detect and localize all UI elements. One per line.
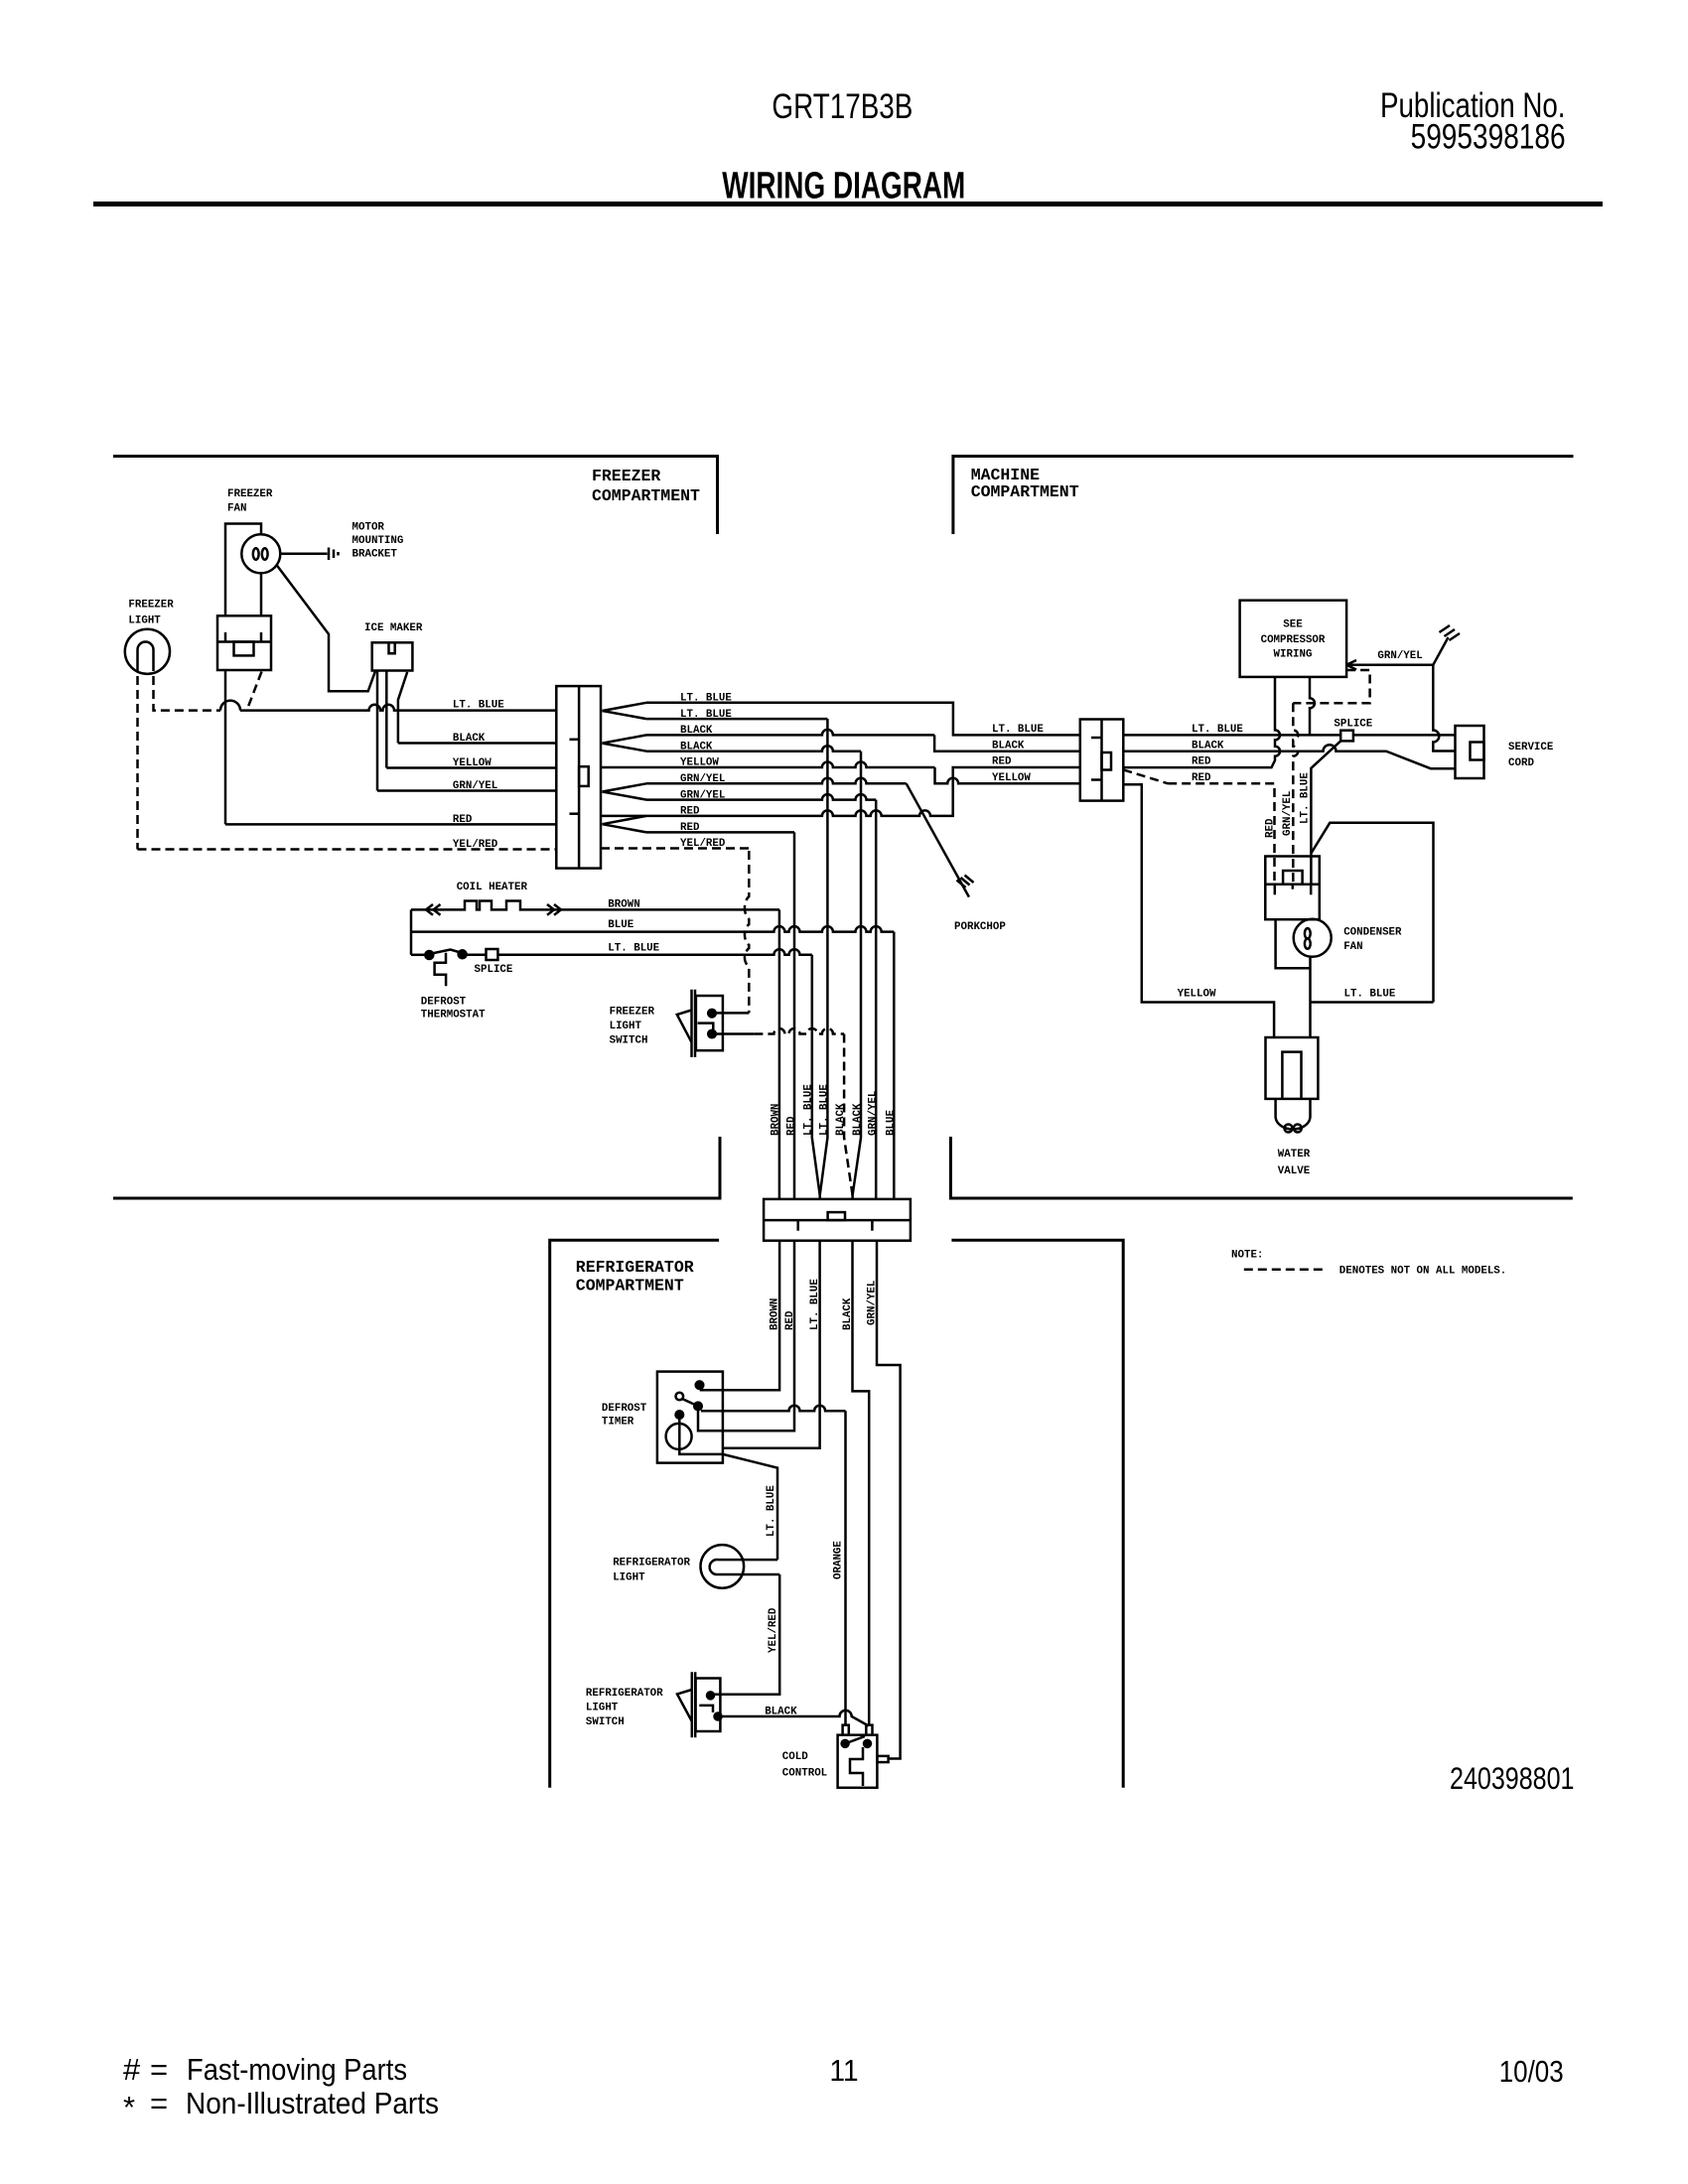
label BLACK vert2	[852, 1103, 864, 1136]
label BLACK left	[453, 733, 486, 745]
svg-text:FREEZER: FREEZER	[592, 467, 660, 485]
defrost timer TM1	[657, 1372, 723, 1463]
wire LT. BLUE drop merge	[812, 719, 828, 1199]
wire GRN/YEL to cold control	[877, 1241, 901, 1759]
label BROWN vert2	[770, 1298, 781, 1330]
label RED left	[453, 814, 473, 826]
svg-text:WATER: WATER	[1278, 1149, 1311, 1160]
svg-text:COIL HEATER: COIL HEATER	[457, 882, 528, 893]
svg-text:GRN/YEL: GRN/YEL	[1377, 650, 1422, 662]
label YELLOW machine left	[992, 772, 1031, 784]
wire GRN/YEL left	[377, 789, 556, 792]
svg-text:BLUE: BLUE	[886, 1110, 898, 1136]
svg-text:FAN: FAN	[1343, 941, 1362, 953]
svg-text:ORANGE: ORANGE	[833, 1541, 845, 1579]
hatch porkchop ground	[957, 876, 974, 888]
label BLACK r1	[680, 725, 713, 737]
svg-text:DEFROST: DEFROST	[421, 997, 467, 1009]
wire LT. BLUE splice to service cord	[1353, 734, 1456, 737]
svg-text:BLACK: BLACK	[992, 741, 1025, 752]
wire switch to BLACK dashed drop	[712, 1028, 844, 1034]
svg-text:SPLICE: SPLICE	[475, 964, 513, 976]
svg-text:GRT17B3B: GRT17B3B	[772, 87, 913, 126]
svg-text:FAN: FAN	[227, 503, 246, 515]
label BLUE coil	[608, 919, 633, 931]
label RED vert2	[784, 1310, 796, 1330]
svg-text:LIGHT: LIGHT	[610, 1021, 642, 1032]
svg-text:LT. BLUE: LT. BLUE	[819, 1084, 831, 1136]
refrigerator light switch S3	[677, 1672, 722, 1737]
label BLACK vert1	[835, 1103, 847, 1136]
wire GRN/YEL 1 to porkchop ground	[646, 778, 969, 897]
wire GRN/YEL 2 drop to refrigerator	[646, 794, 876, 799]
svg-text:5995398186: 5995398186	[1411, 118, 1566, 157]
label LT. BLUE vert machine	[1300, 772, 1312, 824]
svg-text:ICE MAKER: ICE MAKER	[364, 622, 423, 634]
svg-text:SWITCH: SWITCH	[586, 1716, 625, 1728]
wire BLACK to cold control	[853, 1241, 870, 1725]
publication number	[1380, 86, 1566, 157]
svg-text:240398801: 240398801	[1450, 1760, 1575, 1796]
svg-text:LT. BLUE: LT. BLUE	[1344, 989, 1396, 1001]
wire BLACK switch to cold control	[718, 1710, 869, 1726]
label LT. BLUE coil	[608, 943, 659, 955]
svg-text:=: =	[150, 2052, 168, 2087]
label LT. BLUE left	[453, 700, 504, 712]
wire BLACK machine to service cord	[1123, 745, 1455, 768]
svg-text:RED: RED	[784, 1310, 796, 1330]
label BROWN coil	[608, 899, 639, 911]
label RED dashed right	[1192, 772, 1211, 784]
wire BLACK solid merge	[853, 751, 861, 1199]
svg-text:*: *	[123, 2090, 135, 2124]
machine compartment border	[950, 457, 1573, 1199]
svg-text:LT. BLUE: LT. BLUE	[608, 943, 659, 955]
label SPLICE machine	[1334, 719, 1372, 731]
svg-text:GRN/YEL: GRN/YEL	[453, 780, 497, 792]
svg-text:11: 11	[830, 2053, 859, 2088]
label RED machine right	[1192, 756, 1211, 768]
label GRN/YEL vert machine	[1282, 791, 1294, 836]
wire BLACK dashed merge	[844, 1034, 853, 1196]
machine compartment label	[971, 466, 1079, 501]
note text	[1339, 1266, 1506, 1278]
wire BLACK 2 drop to refrigerator	[646, 746, 861, 751]
svg-text:TIMER: TIMER	[602, 1417, 634, 1429]
svg-text:BLACK: BLACK	[835, 1103, 847, 1136]
footer fast-moving parts	[123, 2052, 407, 2087]
label BLACK machine right	[1192, 741, 1224, 752]
svg-text:Fast-moving Parts: Fast-moving Parts	[187, 2052, 407, 2087]
refrigerator connector CONN3	[764, 1199, 911, 1241]
label BLACK vert3	[842, 1297, 854, 1330]
svg-text:BLACK: BLACK	[1192, 741, 1224, 752]
svg-text:LT. BLUE: LT. BLUE	[992, 724, 1044, 736]
footer non-illustrated parts	[123, 2086, 439, 2124]
freezer fan connector P1	[217, 615, 271, 670]
label LT. BLUE r1	[680, 693, 732, 705]
wire LT. BLUE 1 to machine compartment	[646, 703, 1080, 736]
svg-text:BROWN: BROWN	[770, 1298, 781, 1330]
header rule	[93, 202, 1603, 206]
wire LT. BLUE branch to condenser circuit	[1311, 823, 1433, 1003]
freezer fan motor M1	[225, 524, 280, 616]
svg-text:10/03: 10/03	[1499, 2054, 1564, 2089]
label YEL/RED light	[768, 1607, 779, 1653]
label GRN/YEL machine	[1377, 650, 1422, 662]
svg-text:FREEZER: FREEZER	[128, 600, 174, 612]
svg-text:BROWN: BROWN	[608, 899, 639, 911]
wire fan motor lead to ice maker area	[277, 565, 375, 691]
wire RED machine to compressor	[1123, 677, 1280, 767]
wire switch dashes fan connector to LT.BLUE	[248, 672, 262, 709]
svg-text:LT. BLUE: LT. BLUE	[809, 1279, 821, 1330]
ice maker pin 2 to YELLOW	[385, 671, 388, 768]
svg-text:COMPARTMENT: COMPARTMENT	[592, 486, 700, 505]
wire timer to ORANGE cold control	[701, 1406, 846, 1725]
svg-text:BLACK: BLACK	[680, 725, 713, 737]
svg-text:LT. BLUE: LT. BLUE	[680, 709, 732, 721]
wire RED drop	[793, 832, 796, 1199]
freezer light switch S2	[677, 990, 723, 1057]
compressor wiring box	[1240, 601, 1347, 677]
svg-text:COMPRESSOR: COMPRESSOR	[1261, 634, 1326, 646]
wire BROWN drop	[778, 909, 781, 1199]
label GRN/YEL vert2	[867, 1281, 879, 1325]
svg-text:BLACK: BLACK	[842, 1297, 854, 1330]
title model number GRT17B3B	[772, 87, 913, 126]
label RED vert	[786, 1116, 798, 1136]
ice maker pin 1 to GRN/YEL	[376, 671, 379, 791]
wire RED left	[225, 823, 556, 826]
wire compressor pin to LT. BLUE	[1310, 677, 1315, 736]
svg-text:RED: RED	[453, 814, 473, 826]
wire RED dashed to compressor terminal	[1123, 769, 1274, 884]
wire LT. BLUE left	[240, 705, 556, 711]
wire YEL/RED left (dashed)	[138, 848, 557, 851]
label YELLOW left	[453, 757, 492, 769]
note dashed sample	[1244, 1268, 1327, 1271]
svg-text:YEL/RED: YEL/RED	[768, 1607, 779, 1653]
svg-text:YEL/RED: YEL/RED	[453, 839, 498, 851]
label RED vert machine	[1265, 818, 1277, 838]
note legend	[1231, 1250, 1263, 1262]
svg-text:DEFROST: DEFROST	[602, 1403, 647, 1415]
water valve V1	[1266, 1003, 1319, 1133]
label LT. BLUE light	[766, 1485, 777, 1537]
label SPLICE freezer	[475, 964, 513, 976]
svg-text:DENOTES NOT ON ALL MODELS.: DENOTES NOT ON ALL MODELS.	[1339, 1266, 1506, 1278]
wire freezer light to LT.BLUE (dashed)	[154, 662, 241, 711]
svg-text:BLACK: BLACK	[765, 1706, 797, 1718]
compressor wiring label	[1261, 619, 1326, 661]
svg-text:SWITCH: SWITCH	[610, 1035, 648, 1047]
label BROWN vert	[771, 1104, 782, 1136]
refrigerator compartment label	[576, 1258, 694, 1296]
label GRN/YEL left	[453, 780, 497, 792]
wire YELLOW to machine compartment	[601, 762, 1080, 784]
arrow splice RED pair	[603, 816, 647, 833]
svg-text:LT. BLUE: LT. BLUE	[766, 1485, 777, 1537]
footer date	[1499, 2054, 1564, 2089]
svg-text:FREEZER: FREEZER	[227, 488, 273, 500]
svg-text:RED: RED	[992, 756, 1012, 768]
svg-text:CONTROL: CONTROL	[782, 1768, 827, 1780]
label BLUE vert	[886, 1110, 898, 1136]
wire condenser fan loop	[1276, 919, 1311, 1002]
svg-text:LT. BLUE: LT. BLUE	[1192, 724, 1243, 736]
svg-text:COMPARTMENT: COMPARTMENT	[971, 482, 1079, 501]
footer page number	[830, 2053, 859, 2088]
splice on LT. BLUE	[487, 949, 498, 960]
svg-text:REFRIGERATOR: REFRIGERATOR	[613, 1558, 690, 1570]
wire LT. BLUE machine to splice	[1123, 734, 1340, 737]
svg-text:GRN/YEL: GRN/YEL	[680, 773, 725, 785]
svg-text:COMPARTMENT: COMPARTMENT	[576, 1277, 684, 1296]
freezer light label	[128, 600, 174, 627]
ice maker	[372, 642, 413, 670]
arrow splice GRN/YEL pair	[603, 783, 647, 799]
svg-text:YEL/RED: YEL/RED	[680, 838, 726, 850]
freezer fan label	[227, 488, 273, 515]
wire fan connector left pin to RED	[224, 670, 227, 824]
wire YEL/RED dashed drop	[601, 847, 749, 850]
svg-text:REFRIGERATOR: REFRIGERATOR	[586, 1688, 663, 1700]
svg-text:RED: RED	[1192, 772, 1211, 784]
label LT. BLUE vert3	[809, 1279, 821, 1330]
svg-text:LIGHT: LIGHT	[128, 615, 161, 627]
wire BROWN to defrost timer	[701, 1241, 779, 1391]
svg-text:VALVE: VALVE	[1278, 1165, 1311, 1177]
svg-text:THERMOSTAT: THERMOSTAT	[421, 1010, 486, 1022]
part number 240398801	[1450, 1760, 1575, 1796]
refrigerator light label	[613, 1558, 690, 1584]
freezer compartment border	[113, 457, 720, 1199]
svg-text:RED: RED	[680, 806, 700, 818]
coil heater label	[457, 882, 528, 893]
service cord label	[1508, 742, 1554, 769]
svg-text:RED: RED	[680, 822, 700, 834]
label ORANGE	[833, 1541, 845, 1579]
svg-text:PORKCHOP: PORKCHOP	[954, 921, 1006, 933]
svg-text:YELLOW: YELLOW	[1178, 989, 1216, 1001]
defrost timer label	[602, 1403, 647, 1429]
label BLACK r2	[680, 741, 713, 752]
freezer light switch label	[610, 1007, 655, 1047]
svg-text:LT. BLUE: LT. BLUE	[680, 693, 732, 705]
wire LT. BLUE coil heater run	[467, 949, 812, 955]
label BLACK switch	[765, 1706, 797, 1718]
svg-text:#: #	[123, 2052, 141, 2087]
refrigerator compartment border	[550, 1240, 1123, 1788]
ice maker pin 3 to BLACK	[398, 672, 407, 744]
label LT. BLUE bottom	[1344, 989, 1396, 1001]
svg-text:RED: RED	[1192, 756, 1211, 768]
freezer compartment connector CONN1	[556, 686, 601, 869]
wire LT. BLUE to defrost timer	[723, 1241, 820, 1448]
arrow splice LT. BLUE pair	[603, 703, 647, 719]
wire YELLOW machine bottom	[1123, 784, 1274, 1037]
svg-text:Non-Illustrated Parts: Non-Illustrated Parts	[186, 2086, 439, 2120]
svg-text:BLACK: BLACK	[852, 1103, 864, 1136]
label PORKCHOP	[954, 921, 1006, 933]
wire switch to YEL/RED (dashed riser)	[712, 851, 749, 1013]
label YELLOW r	[680, 757, 719, 769]
svg-text:FREEZER: FREEZER	[610, 1007, 655, 1019]
svg-text:SPLICE: SPLICE	[1334, 719, 1372, 731]
svg-text:LIGHT: LIGHT	[586, 1703, 619, 1714]
wire BLUE drop	[893, 932, 896, 1199]
wire RED 1 to machine compartment	[601, 767, 1080, 816]
wire GRN/YEL drop	[875, 800, 878, 1199]
cold control S4	[838, 1725, 889, 1788]
label GRN/YEL vert	[868, 1091, 880, 1136]
svg-text:BRACKET: BRACKET	[352, 549, 398, 561]
svg-text:LT. BLUE: LT. BLUE	[1300, 772, 1312, 824]
svg-text:LT. BLUE: LT. BLUE	[803, 1084, 815, 1136]
wire BLACK 1 to machine compartment	[646, 730, 1080, 751]
service cord connector	[1456, 726, 1484, 778]
svg-text:REFRIGERATOR: REFRIGERATOR	[576, 1258, 694, 1277]
wire freezer light to YEL/RED (dashed)	[136, 662, 139, 850]
splice machine	[1340, 731, 1353, 742]
water valve label	[1278, 1149, 1311, 1177]
hatch ground GRN/YEL	[1440, 625, 1461, 640]
label LT. BLUE r2	[680, 709, 732, 721]
svg-text:NOTE:: NOTE:	[1231, 1250, 1263, 1262]
svg-text:LT. BLUE: LT. BLUE	[453, 700, 504, 712]
condenser fan label	[1343, 927, 1402, 954]
compressor terminal box	[1265, 857, 1320, 920]
wire LT. BLUE 2 drop to refrigerator	[646, 718, 827, 721]
wire fan to motor mounting bracket	[280, 553, 327, 556]
motor mounting bracket label	[352, 522, 404, 561]
svg-text:BLACK: BLACK	[453, 733, 486, 745]
svg-text:YELLOW: YELLOW	[453, 757, 492, 769]
arrow splice BLACK pair	[603, 735, 647, 751]
wire BLACK left	[398, 742, 556, 745]
refrigerator light lamp	[701, 1545, 780, 1588]
freezer light lamp	[125, 629, 170, 674]
defrost thermostat S1	[411, 950, 467, 987]
freezer compartment label	[592, 467, 700, 505]
svg-text:=: =	[150, 2086, 168, 2120]
wire LT. BLUE machine bottom	[1311, 1001, 1434, 1004]
svg-text:SERVICE: SERVICE	[1508, 742, 1554, 753]
coil heater R1 with arrows	[411, 901, 779, 915]
condenser fan motor M2	[1294, 919, 1332, 957]
svg-text:GRN/YEL: GRN/YEL	[868, 1091, 880, 1136]
wire timer motor to refrigerator light (LT. BLUE)	[723, 1454, 777, 1560]
refrigerator light switch label	[586, 1688, 663, 1728]
label RED r1	[680, 806, 700, 818]
svg-text:LIGHT: LIGHT	[613, 1572, 645, 1584]
svg-text:RED: RED	[1265, 818, 1277, 838]
cold control label	[782, 1751, 827, 1780]
wire YELLOW left	[386, 766, 556, 769]
svg-text:SEE: SEE	[1283, 619, 1303, 631]
wire RED 2 drop to refrigerator	[646, 831, 794, 834]
svg-text:YELLOW: YELLOW	[992, 772, 1031, 784]
wire light to switch YEL/RED	[711, 1574, 779, 1695]
label YEL/RED r	[680, 838, 726, 850]
wire GRN/YEL compressor to ground and service cord	[1346, 637, 1455, 751]
svg-text:COLD: COLD	[782, 1751, 808, 1763]
wire BLUE to refrigerator	[411, 926, 894, 932]
label LT. BLUE machine right	[1192, 724, 1243, 736]
ice maker label	[364, 622, 423, 634]
svg-text:RED: RED	[786, 1116, 798, 1136]
svg-text:GRN/YEL: GRN/YEL	[680, 789, 725, 801]
label LT. BLUE machine left	[992, 724, 1044, 736]
svg-text:MOTOR: MOTOR	[352, 522, 385, 534]
wire GRN/YEL dashed compressor to terminal	[1293, 670, 1369, 885]
svg-text:WIRING: WIRING	[1274, 649, 1313, 661]
label RED r2	[680, 822, 700, 834]
svg-text:BROWN: BROWN	[771, 1104, 782, 1136]
labels LT. BLUE vert	[803, 1084, 831, 1136]
svg-text:BLUE: BLUE	[608, 919, 633, 931]
label YEL/RED left	[453, 839, 498, 851]
svg-text:WIRING DIAGRAM: WIRING DIAGRAM	[722, 166, 965, 207]
wire LT. BLUE splice to compressor terminal	[1311, 741, 1340, 884]
defrost thermostat label	[421, 997, 486, 1022]
wire RED to defrost timer	[723, 1241, 794, 1432]
label GRN/YEL r2	[680, 789, 725, 801]
svg-text:GRN/YEL: GRN/YEL	[1282, 791, 1294, 836]
heading WIRING DIAGRAM	[722, 166, 965, 207]
svg-text:CORD: CORD	[1508, 757, 1534, 769]
label YELLOW bottom	[1178, 989, 1216, 1001]
ground motor mounting bracket	[329, 548, 339, 561]
wire coil left leg	[410, 909, 413, 954]
svg-text:MOUNTING: MOUNTING	[352, 535, 404, 547]
machine connector CONN2	[1080, 720, 1124, 801]
svg-text:CONDENSER: CONDENSER	[1343, 927, 1402, 939]
svg-text:BLACK: BLACK	[680, 741, 713, 752]
svg-text:YELLOW: YELLOW	[680, 757, 719, 769]
svg-text:GRN/YEL: GRN/YEL	[867, 1281, 879, 1325]
label GRN/YEL r1	[680, 773, 725, 785]
label BLACK machine left	[992, 741, 1025, 752]
label RED machine left	[992, 756, 1012, 768]
